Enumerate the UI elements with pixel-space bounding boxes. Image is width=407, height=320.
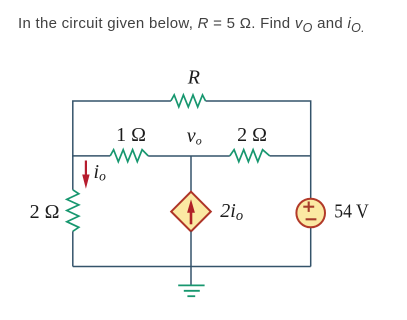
resistor 1 ohm <box>110 150 148 162</box>
ground symbol <box>178 285 204 296</box>
wire left vertical above resistor <box>72 156 74 190</box>
wire middle-center segment <box>148 155 230 157</box>
svg-text:2 Ω: 2 Ω <box>237 124 267 146</box>
wire node stem above dependent source <box>190 156 192 192</box>
wire middle-left segment <box>72 155 110 157</box>
current io arrow (red) <box>82 161 89 189</box>
svg-text:R: R <box>187 67 200 89</box>
wire top-left: top rail left of R <box>73 101 171 157</box>
dependent current source diamond <box>171 192 211 232</box>
ground stem <box>190 267 192 286</box>
minus sign inside source <box>306 218 317 220</box>
wire left vertical below resistor <box>72 231 74 266</box>
wire top-right: top rail right of R <box>206 101 311 198</box>
svg-text:2 Ω: 2 Ω <box>30 201 60 223</box>
svg-text:54 V: 54 V <box>334 201 369 223</box>
wire bottom rail <box>73 266 311 268</box>
resistor 2 ohm (middle) <box>230 150 270 162</box>
wire below dependent source <box>190 232 192 267</box>
svg-text:2io: 2io <box>220 200 243 224</box>
svg-text:vo: vo <box>187 125 202 148</box>
wire middle-right segment <box>270 155 311 157</box>
svg-text:1 Ω: 1 Ω <box>116 124 146 146</box>
problem statement text <box>18 15 365 32</box>
dependent source arrow (red, up) <box>187 199 195 224</box>
resistor R (top) <box>171 95 206 107</box>
plus sign inside source <box>303 202 314 212</box>
voltage source circle 54V <box>296 199 325 228</box>
wire right vertical below source <box>310 227 312 266</box>
svg-text:io: io <box>94 161 107 184</box>
resistor 2 ohm (left, vertical) <box>67 190 79 232</box>
